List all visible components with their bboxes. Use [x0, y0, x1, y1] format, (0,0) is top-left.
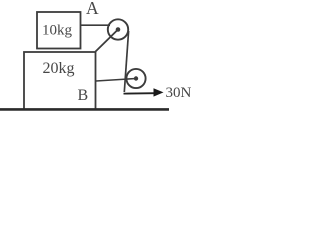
svg-text:10kg: 10kg: [42, 23, 73, 39]
wire: rope from block A to pulley P1: [81, 24, 111, 26]
svg-text:A: A: [86, 0, 99, 18]
pulley P1: [108, 19, 128, 39]
svg-text:20kg: 20kg: [43, 60, 75, 77]
block A (10kg): [37, 12, 81, 49]
block B (20kg): [24, 52, 96, 109]
pulley P2: [126, 69, 145, 88]
wire: rope from pulley P1 down to pulley P2: [124, 31, 128, 92]
wire: bracket from block B corner to pulley P1 axle: [95, 30, 118, 52]
svg-text:B: B: [78, 87, 89, 104]
ground: [0, 108, 169, 111]
wire: axle rod from block B to pulley P2: [96, 79, 136, 82]
force arrow 30N: [124, 88, 164, 96]
svg-text:30N: 30N: [166, 85, 192, 101]
